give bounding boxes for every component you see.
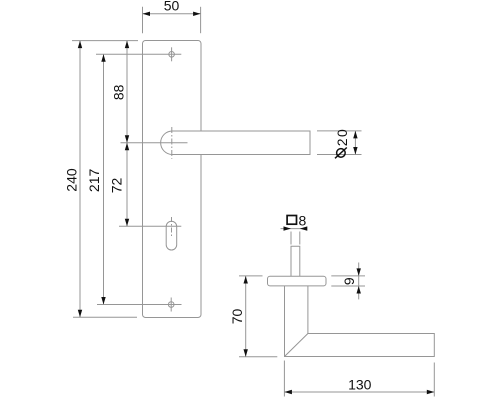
dimension 50: extension lines <box>142 7 144 33</box>
dimension 72: line <box>126 143 128 227</box>
arrow 9 top (outside) <box>357 268 361 276</box>
arrow 240 bottom <box>78 310 82 318</box>
arrow square8 right (outside) <box>300 226 308 230</box>
dimension 130: right extension <box>433 363 435 397</box>
arrow square8 left (outside) <box>284 226 292 230</box>
wire: keyhole horizontal line (72 extension) <box>119 225 181 227</box>
dimension 9: line <box>358 263 360 300</box>
dimension 88: line <box>126 41 128 143</box>
wire: handle horizontal centerline <box>121 142 188 144</box>
keyhole slot <box>166 221 177 250</box>
arrow 88 top <box>125 41 129 49</box>
dimension 130: line <box>284 391 434 393</box>
arrow 9 bottom (outside) <box>357 286 361 294</box>
wire: bottom screw crosshair vertical <box>170 298 172 312</box>
svg-text:240: 240 <box>64 168 80 192</box>
svg-text:88: 88 <box>111 84 127 100</box>
dimension 217: line <box>103 54 105 304</box>
spindle side view <box>291 246 300 276</box>
svg-text:50: 50 <box>164 0 180 13</box>
dimension 70: top extension <box>239 275 263 277</box>
dimension 240: line <box>79 41 81 318</box>
svg-text:9: 9 <box>341 277 357 285</box>
svg-text:8: 8 <box>299 212 307 228</box>
dimension 70: bottom extension <box>239 356 277 358</box>
dimension 240: bottom extension <box>73 316 137 318</box>
square symbol of square-8 label <box>287 216 296 225</box>
arrow 217 top <box>101 54 105 62</box>
arrow 130 left <box>284 390 292 394</box>
arrow 70 top <box>244 276 248 284</box>
arrow D20 bottom <box>353 147 357 155</box>
svg-text:72: 72 <box>108 178 124 194</box>
arrow 50 left <box>143 12 151 16</box>
spindle square 8 dimension line <box>281 228 308 230</box>
top screw hole <box>169 52 175 58</box>
svg-text:70: 70 <box>229 309 245 325</box>
bottom screw hole <box>168 302 174 308</box>
rosette side view <box>268 276 327 286</box>
arrow 130 right <box>427 390 435 394</box>
handle side view L-shape <box>285 286 435 357</box>
spindle 8: extension lines <box>290 232 292 245</box>
arrow D20 top <box>353 131 357 139</box>
wire: top screw crosshair vertical <box>171 47 173 61</box>
dimension 130: left extension <box>283 361 285 397</box>
wire: handle vertical centerline <box>171 127 173 159</box>
dimension 50: line <box>143 13 201 15</box>
arrow 70 bottom <box>244 349 248 357</box>
dimension 9: extension lines <box>331 275 365 277</box>
wire: keyhole centerline vertical <box>171 217 173 237</box>
svg-text:217: 217 <box>86 169 102 193</box>
svg-text:20: 20 <box>334 128 350 147</box>
handle miter seam <box>285 334 308 357</box>
arrow 72 top <box>125 143 129 151</box>
svg-text:130: 130 <box>348 376 372 392</box>
arrow 217 bottom <box>101 297 105 305</box>
dimension 70: line <box>245 276 247 357</box>
wire: bottom screw crosshair horizontal (217 extension) <box>97 304 182 306</box>
arrow 50 right <box>193 12 201 16</box>
arrow 88 bottom <box>125 135 129 143</box>
label D20: diameter symbol slash <box>335 148 347 159</box>
backplate outline <box>143 41 202 318</box>
dimension 240: top extension <box>72 40 138 42</box>
handle lever front view <box>161 131 310 155</box>
wire: top screw crosshair horizontal (217/88 extension) <box>96 53 181 55</box>
dimension D20: line <box>354 131 356 155</box>
arrow 72 bottom <box>125 219 129 227</box>
label D20: diameter symbol circle <box>337 149 346 158</box>
dimension D20: extension lines <box>317 130 362 132</box>
arrow 240 top <box>78 41 82 49</box>
